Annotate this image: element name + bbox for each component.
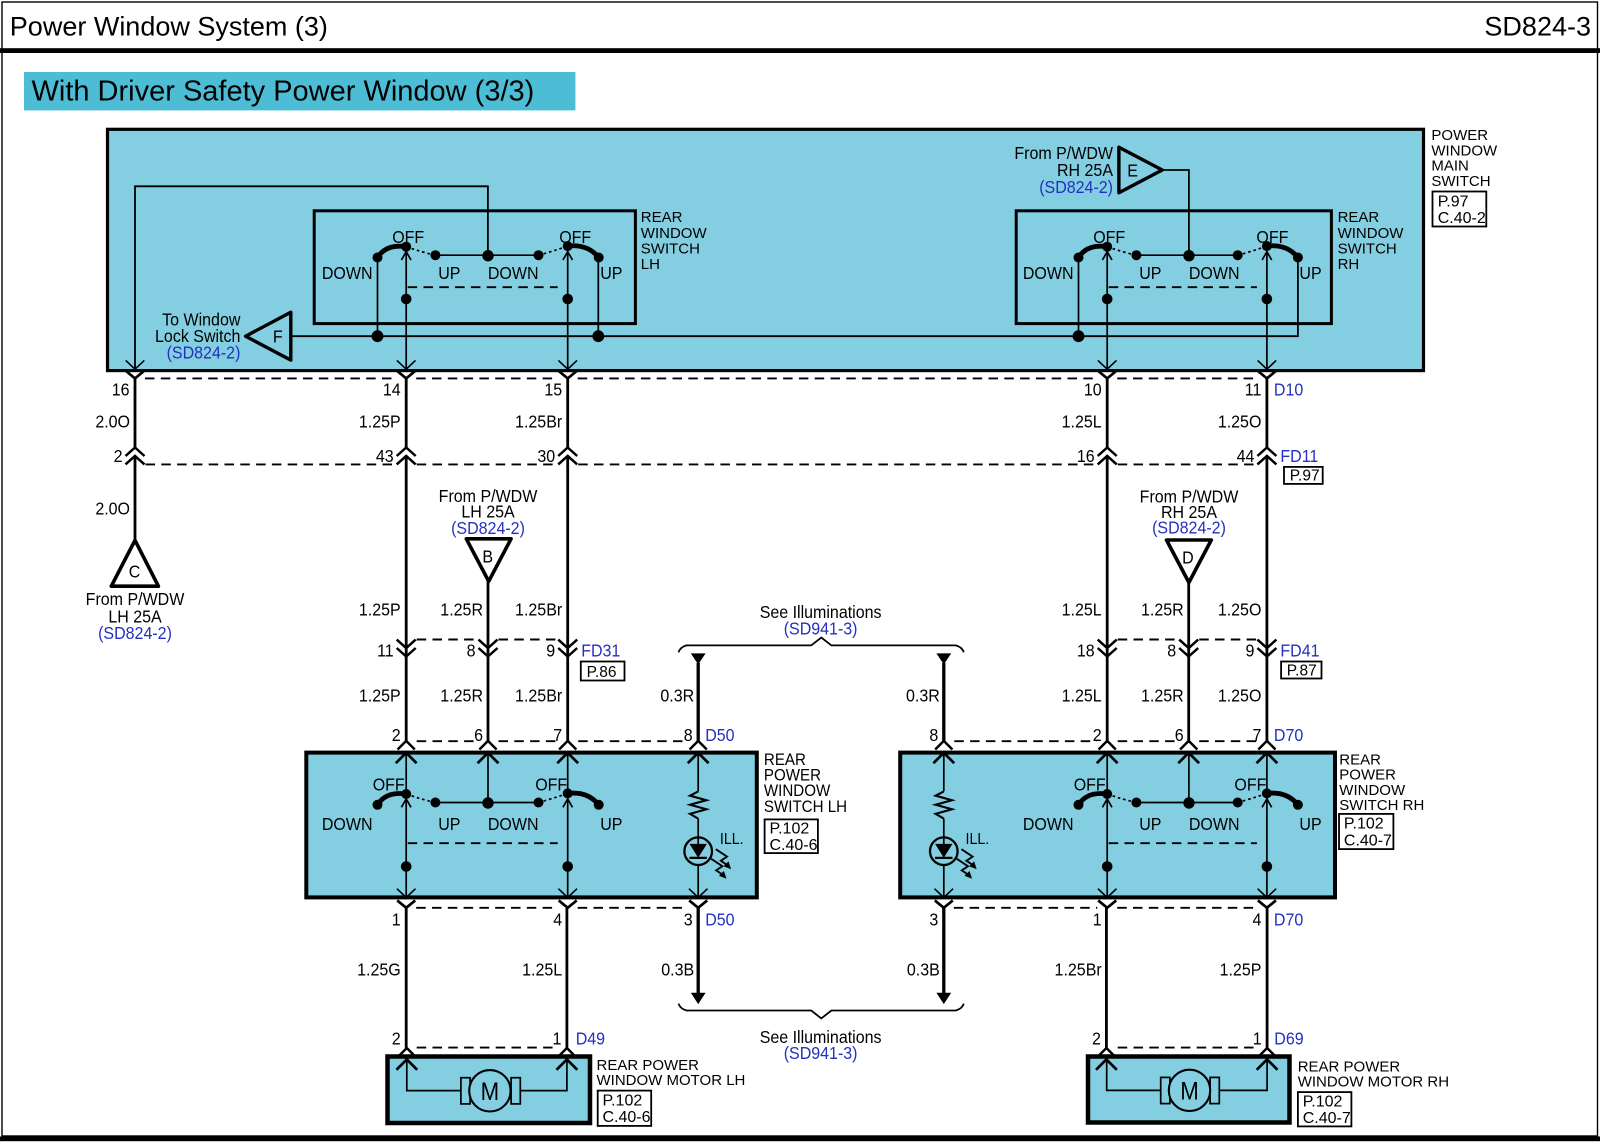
inline connector row chevrons (2 43 30 16 44) <box>126 448 145 465</box>
svg-text:REAR: REAR <box>1338 209 1380 226</box>
svg-text:1.25O: 1.25O <box>1218 412 1262 432</box>
wire: pole 1 <box>405 251 407 369</box>
illumination return arrow LH <box>691 993 706 1004</box>
svg-text:(SD824-2): (SD824-2) <box>1039 177 1113 197</box>
LED ILL LH <box>697 819 699 844</box>
svg-text:UP: UP <box>600 814 622 834</box>
svg-text:6: 6 <box>1175 725 1184 745</box>
mechanical linkage (dashed) <box>408 842 558 844</box>
pole junction dots <box>401 861 412 872</box>
svg-text:DOWN: DOWN <box>1023 814 1074 834</box>
pins at main switch box bottom: 16 14 15 10 11 <box>126 360 145 369</box>
svg-text:SWITCH RH: SWITCH RH <box>1339 797 1424 814</box>
motor LH symbol M <box>469 1070 510 1111</box>
svg-text:1.25O: 1.25O <box>1218 600 1262 620</box>
switch rocker RH half: OFF arc <box>539 246 568 255</box>
svg-text:1.25R: 1.25R <box>1141 600 1184 620</box>
switch rocker RH half: OFF arc <box>1238 793 1267 802</box>
pin chevrons at motor RH <box>1098 1048 1115 1057</box>
svg-text:OFF: OFF <box>559 227 591 247</box>
svg-text:2: 2 <box>392 1029 401 1049</box>
illumination feed arrow RH <box>936 653 951 664</box>
svg-text:DOWN: DOWN <box>488 263 539 283</box>
ref box: P.102 C.40-7 (motor RH) <box>1298 1092 1352 1126</box>
svg-text:DOWN: DOWN <box>488 814 539 834</box>
svg-text:1.25L: 1.25L <box>522 960 562 980</box>
svg-text:C.40-6: C.40-6 <box>770 837 818 854</box>
svg-text:2: 2 <box>1092 1029 1101 1049</box>
svg-text:16: 16 <box>112 379 130 399</box>
svg-text:11: 11 <box>377 641 394 661</box>
svg-text:D49: D49 <box>576 1029 605 1049</box>
switch rocker LH half: OFF arc <box>378 793 407 804</box>
wire: stub LH DOWN contact to bus <box>377 260 379 337</box>
svg-text:WINDOW: WINDOW <box>1338 225 1405 242</box>
component box: REAR POWER WINDOW MOTOR LH <box>388 1057 591 1124</box>
svg-text:2.0O: 2.0O <box>95 412 130 432</box>
component box: REAR POWER WINDOW SWITCH LH <box>306 753 757 898</box>
ref box: P.87 <box>1281 662 1321 679</box>
junction dots on window-lock bus <box>372 330 384 342</box>
component box: POWER WINDOW MAIN SWITCH <box>108 129 1424 370</box>
svg-text:0.3B: 0.3B <box>661 960 694 980</box>
svg-text:LH: LH <box>641 256 660 273</box>
svg-text:8: 8 <box>929 725 938 745</box>
svg-text:OFF: OFF <box>1256 227 1288 247</box>
svg-text:2: 2 <box>1093 725 1102 745</box>
pin chevrons at rear switch LH top <box>398 741 415 750</box>
svg-text:(SD824-2): (SD824-2) <box>1152 517 1226 537</box>
wire 0.3R RH <box>942 663 945 741</box>
ref box: P.102 C.40-7 (switch RH) <box>1339 814 1393 849</box>
svg-text:8: 8 <box>1167 641 1176 661</box>
switch pole arrows <box>1102 252 1112 260</box>
contact dots <box>1074 800 1084 810</box>
subtitle highlight bar <box>24 72 575 110</box>
wire motor feed LH 2 <box>566 908 569 1048</box>
wire 11 vertical lower <box>1266 456 1269 741</box>
connector dashed line D69 row <box>1118 1047 1257 1049</box>
ref box: P.102 C.40-6 (switch LH) <box>765 819 818 853</box>
svg-text:(SD824-2): (SD824-2) <box>167 343 241 363</box>
contact dots <box>373 800 383 810</box>
svg-text:(SD941-3): (SD941-3) <box>784 618 858 638</box>
ref box: P.97 <box>1284 467 1323 484</box>
wire 16->2 segment lower <box>134 456 137 541</box>
illumination feed arrow LH <box>691 653 706 664</box>
wire: pole 1 <box>405 753 407 898</box>
svg-text:UP: UP <box>1139 814 1161 834</box>
svg-text:C: C <box>129 562 141 582</box>
svg-text:OFF: OFF <box>1093 227 1125 247</box>
svg-text:FD11: FD11 <box>1280 446 1318 466</box>
component box: REAR WINDOW SWITCH LH <box>314 211 635 324</box>
switch pole arrows <box>1102 799 1112 807</box>
switch pole arrows <box>401 799 411 807</box>
wire: switch common bar <box>1136 254 1237 256</box>
svg-text:C.40-7: C.40-7 <box>1344 832 1392 849</box>
mechanical linkage (dashed) <box>408 286 558 288</box>
svg-text:RH: RH <box>1338 256 1360 273</box>
svg-text:1.25G: 1.25G <box>357 960 401 980</box>
svg-text:WINDOW MOTOR RH: WINDOW MOTOR RH <box>1298 1074 1449 1091</box>
svg-text:REAR: REAR <box>641 209 683 226</box>
brace above See Illuminations bottom <box>679 1004 964 1019</box>
switch rocker LH half: OFF arc <box>1079 246 1108 257</box>
pole junction dots <box>401 294 412 305</box>
svg-text:DOWN: DOWN <box>1189 814 1240 834</box>
svg-text:D: D <box>1182 548 1194 568</box>
svg-text:FD31: FD31 <box>581 641 620 661</box>
svg-text:6: 6 <box>474 725 483 745</box>
switch rocker RH half: OFF arc <box>539 793 568 802</box>
svg-text:(SD824-2): (SD824-2) <box>451 518 525 538</box>
svg-text:C.40-7: C.40-7 <box>1303 1110 1351 1127</box>
svg-text:UP: UP <box>1139 263 1161 283</box>
svg-text:3: 3 <box>929 910 938 930</box>
wire: pole 1 <box>1106 753 1108 898</box>
component box: REAR POWER WINDOW MOTOR RH <box>1088 1057 1290 1123</box>
mechanical linkage (dashed) <box>1109 286 1257 288</box>
brace under See Illuminations top <box>679 638 964 653</box>
svg-text:DOWN: DOWN <box>1023 263 1074 283</box>
svg-text:UP: UP <box>600 263 622 283</box>
pin chevrons at rear switch RH top <box>935 741 952 750</box>
svg-text:4: 4 <box>553 910 562 930</box>
svg-text:DOWN: DOWN <box>322 263 373 283</box>
wire: pole 2 <box>1266 753 1268 898</box>
svg-text:UP: UP <box>438 263 460 283</box>
connector F (to window lock switch) <box>246 312 291 360</box>
svg-text:SWITCH LH: SWITCH LH <box>764 797 847 816</box>
component box: REAR POWER WINDOW SWITCH RH <box>900 753 1335 898</box>
svg-text:DOWN: DOWN <box>322 814 373 834</box>
motor LH internal wiring <box>407 1059 461 1090</box>
ref box: P.86 <box>581 662 625 681</box>
wire: window-lock bus <box>291 260 1298 336</box>
svg-text:OFF: OFF <box>1234 775 1266 795</box>
svg-text:D50: D50 <box>705 725 734 745</box>
wire motor feed RH 1 <box>1105 908 1108 1048</box>
svg-text:2.0O: 2.0O <box>95 499 130 519</box>
wire 11 vertical upper <box>1266 378 1269 447</box>
wire: pole 2 <box>1266 251 1268 369</box>
svg-text:1.25P: 1.25P <box>359 412 401 432</box>
svg-text:M: M <box>1180 1078 1199 1105</box>
svg-text:(SD941-3): (SD941-3) <box>784 1043 858 1063</box>
svg-text:1.25P: 1.25P <box>359 600 401 620</box>
svg-text:18: 18 <box>1077 641 1095 661</box>
svg-text:2: 2 <box>392 725 401 745</box>
svg-text:0.3R: 0.3R <box>660 686 694 706</box>
svg-text:3: 3 <box>684 910 693 930</box>
svg-text:30: 30 <box>537 446 555 466</box>
svg-text:P.102: P.102 <box>770 821 810 838</box>
ref box: P.97 C.40-2 <box>1433 192 1487 227</box>
svg-text:P.102: P.102 <box>1303 1094 1343 1111</box>
svg-text:7: 7 <box>1252 725 1261 745</box>
connector dashed line D10 <box>145 377 396 379</box>
wire 15 vertical lower <box>566 456 569 741</box>
svg-text:1.25L: 1.25L <box>1062 412 1102 432</box>
svg-text:M: M <box>481 1079 500 1106</box>
pins at rear switch LH bottom: 1 4 3 <box>397 889 416 898</box>
wire: stub LH UP contact to bus <box>597 260 599 337</box>
switch rocker LH half: OFF arc <box>1079 793 1108 804</box>
illumination return arrow RH <box>936 993 951 1004</box>
wire motor feed RH 2 <box>1266 908 1269 1048</box>
svg-text:1: 1 <box>552 1029 561 1049</box>
motor LH brushes <box>461 1078 470 1104</box>
svg-text:D50: D50 <box>705 910 734 930</box>
svg-text:WINDOW: WINDOW <box>641 225 708 242</box>
svg-text:1.25Br: 1.25Br <box>515 412 562 432</box>
svg-text:1.25L: 1.25L <box>1062 600 1102 620</box>
wire D vertical <box>1187 582 1190 741</box>
resistor ILL LH <box>697 753 699 792</box>
wire 14 vertical upper <box>405 378 408 447</box>
svg-text:ILL.: ILL. <box>966 830 990 848</box>
svg-text:C.40-6: C.40-6 <box>603 1109 651 1126</box>
switch rocker LH half: OFF arc <box>378 246 407 257</box>
svg-text:9: 9 <box>546 641 555 661</box>
svg-text:P.87: P.87 <box>1287 662 1317 679</box>
connector E (from P/WDW RH 25A) <box>1119 147 1162 193</box>
switch pole arrows <box>401 252 411 260</box>
svg-text:SD824-3: SD824-3 <box>1484 12 1591 42</box>
svg-text:1.25O: 1.25O <box>1218 686 1262 706</box>
svg-text:8: 8 <box>467 641 476 661</box>
svg-text:F: F <box>273 327 283 347</box>
connector chevrons FD31/FD41 rows <box>397 640 416 657</box>
resistor ILL RH <box>943 753 945 792</box>
connector dashed line D50 bottom row <box>416 907 558 909</box>
svg-text:P.102: P.102 <box>1344 815 1384 832</box>
svg-text:E: E <box>1127 161 1138 181</box>
wire 10 vertical upper <box>1106 378 1109 447</box>
svg-text:11: 11 <box>1245 379 1262 399</box>
svg-text:FD41: FD41 <box>1280 641 1319 661</box>
svg-text:B: B <box>482 546 493 566</box>
svg-text:1.25P: 1.25P <box>359 686 401 706</box>
component box: REAR WINDOW SWITCH RH <box>1016 211 1331 324</box>
contact dots <box>373 253 383 263</box>
svg-text:8: 8 <box>684 725 693 745</box>
svg-text:D70: D70 <box>1274 910 1303 930</box>
wire 0.3B LH <box>697 908 700 995</box>
svg-text:Power Window System (3): Power Window System (3) <box>10 12 328 42</box>
connector dashed line D70 bottom row <box>954 907 1097 909</box>
svg-text:7: 7 <box>553 725 562 745</box>
svg-text:P.86: P.86 <box>587 664 617 681</box>
svg-text:UP: UP <box>1299 263 1321 283</box>
wire 15 vertical upper <box>566 378 569 447</box>
wire motor feed LH 1 <box>405 908 408 1048</box>
svg-text:1.25P: 1.25P <box>1220 960 1262 980</box>
motor RH brushes <box>1161 1077 1170 1103</box>
contact dots <box>1074 253 1084 263</box>
svg-text:DOWN: DOWN <box>1189 263 1240 283</box>
svg-text:1: 1 <box>392 910 401 930</box>
pole junction dots <box>1102 294 1113 305</box>
connector dashed line FD41 row <box>1118 639 1179 641</box>
header rule <box>0 48 1600 53</box>
svg-text:1.25R: 1.25R <box>440 686 483 706</box>
wire 16->2 segment upper <box>134 378 137 447</box>
illumination arrows RH <box>961 849 973 866</box>
connector dashed line D50 row <box>417 740 478 742</box>
connector B (from P/WDW LH 25A) <box>466 539 511 582</box>
svg-text:UP: UP <box>438 814 460 834</box>
motor RH internal wiring <box>1107 1059 1161 1090</box>
wire: switch common bar <box>435 254 538 256</box>
svg-text:16: 16 <box>1077 446 1095 466</box>
svg-text:1.25R: 1.25R <box>440 600 483 620</box>
svg-text:1.25L: 1.25L <box>1062 686 1102 706</box>
svg-text:0.3B: 0.3B <box>907 960 940 980</box>
switch rocker RH half: OFF arc <box>1238 246 1267 255</box>
wire: switch common bar <box>1136 802 1237 804</box>
svg-text:OFF: OFF <box>373 775 405 795</box>
svg-text:D10: D10 <box>1274 379 1303 399</box>
motor RH symbol M <box>1169 1070 1210 1111</box>
svg-text:0.3R: 0.3R <box>906 686 940 706</box>
svg-text:D69: D69 <box>1274 1029 1303 1049</box>
connector C (from P/WDW LH 25A) <box>111 540 158 586</box>
wire pin6 to LH junction <box>487 753 489 803</box>
svg-text:With Driver Safety Power Windo: With Driver Safety Power Window (3/3) <box>32 76 535 108</box>
wire 14 vertical lower <box>405 456 408 741</box>
pin chevrons at motor LH <box>398 1048 415 1057</box>
connector dashed line D49 row <box>417 1047 558 1049</box>
ref box: P.102 C.40-6 (motor LH) <box>598 1091 652 1126</box>
wire: stub RH DOWN contact to bus <box>1078 260 1080 337</box>
svg-text:1.25R: 1.25R <box>1141 686 1184 706</box>
svg-text:43: 43 <box>376 446 394 466</box>
svg-text:P.102: P.102 <box>603 1092 643 1109</box>
wire: pole 2 <box>567 753 569 898</box>
mechanical linkage (dashed) <box>1109 842 1257 844</box>
svg-text:1: 1 <box>1253 1029 1262 1049</box>
wire: pole 2 <box>567 251 569 369</box>
svg-text:P.97: P.97 <box>1290 468 1320 485</box>
svg-text:44: 44 <box>1237 446 1255 466</box>
page bottom bar <box>0 1137 1600 1142</box>
connector dashed line FD31 row <box>417 639 478 641</box>
pins at rear switch RH bottom: 3 1 4 <box>935 889 954 898</box>
svg-text:9: 9 <box>1245 641 1254 661</box>
svg-text:OFF: OFF <box>392 227 424 247</box>
connector dashed line D70 row <box>954 740 1096 742</box>
svg-text:SWITCH: SWITCH <box>1431 173 1490 190</box>
LED ILL RH <box>943 819 945 844</box>
pole junction dots <box>1102 861 1113 872</box>
svg-text:4: 4 <box>1252 910 1261 930</box>
svg-text:1.25Br: 1.25Br <box>1055 960 1102 980</box>
wire 10 vertical lower <box>1106 456 1109 741</box>
svg-text:15: 15 <box>544 379 562 399</box>
wire: E to RH switch junction <box>1162 170 1189 251</box>
svg-text:C.40-2: C.40-2 <box>1438 210 1486 227</box>
svg-text:10: 10 <box>1084 379 1102 399</box>
wire pin6 to RH junction <box>1188 753 1190 803</box>
wire 0.3R LH <box>697 663 700 741</box>
svg-text:(SD824-2): (SD824-2) <box>98 623 172 643</box>
svg-text:WINDOW MOTOR LH: WINDOW MOTOR LH <box>597 1072 746 1089</box>
svg-text:D70: D70 <box>1274 725 1303 745</box>
svg-text:UP: UP <box>1299 814 1321 834</box>
wire: feed from pin 16 up and across to LH switch junction <box>135 186 488 369</box>
svg-text:OFF: OFF <box>1074 775 1106 795</box>
svg-text:ILL.: ILL. <box>720 830 744 848</box>
connector dashed line FD11 row <box>146 463 396 465</box>
svg-text:SWITCH: SWITCH <box>641 240 700 257</box>
svg-text:OFF: OFF <box>535 775 567 795</box>
svg-text:1.25Br: 1.25Br <box>515 686 562 706</box>
svg-text:1.25Br: 1.25Br <box>515 600 562 620</box>
svg-text:14: 14 <box>383 379 401 399</box>
svg-text:SWITCH: SWITCH <box>1338 240 1397 257</box>
svg-text:2: 2 <box>114 446 123 466</box>
wire: pole 1 <box>1106 251 1108 369</box>
wire B vertical <box>487 581 490 741</box>
illumination arrows LH <box>716 849 728 866</box>
wire 0.3B RH <box>942 908 945 995</box>
svg-text:P.97: P.97 <box>1438 193 1469 210</box>
svg-text:1: 1 <box>1093 910 1102 930</box>
wire: switch common bar <box>435 802 538 804</box>
connector D (from P/WDW RH 25A) <box>1167 540 1212 583</box>
